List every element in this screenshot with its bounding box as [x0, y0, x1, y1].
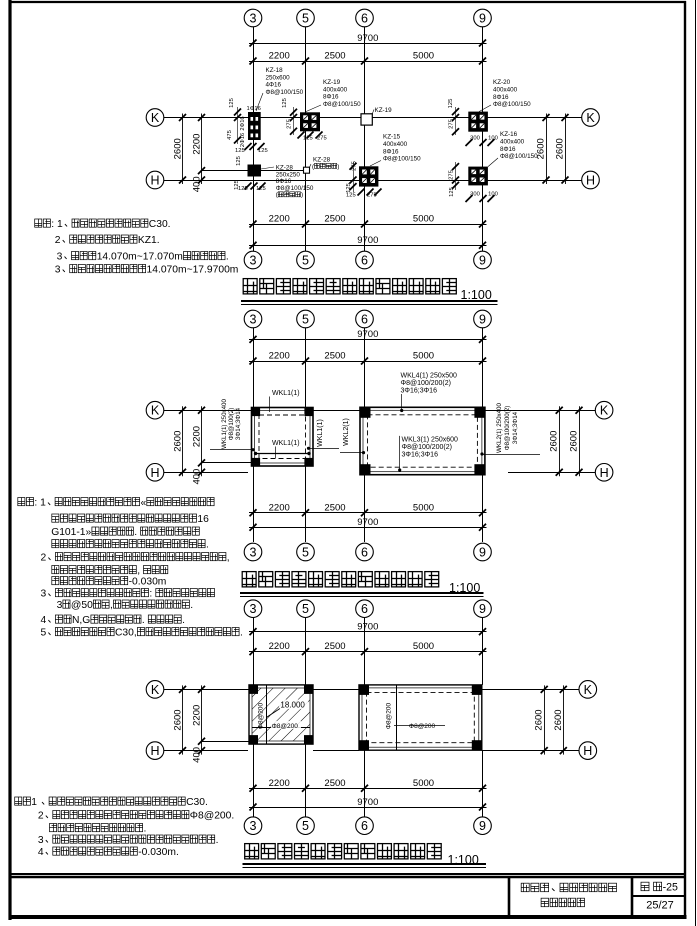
svg-text:9: 9 [479, 254, 486, 268]
svg-text:400x400: 400x400 [383, 141, 408, 148]
svg-text:@50: @50 [71, 600, 93, 611]
svg-text:2200: 2200 [269, 641, 290, 652]
svg-text:475: 475 [227, 130, 233, 140]
svg-text:4: 4 [38, 847, 44, 858]
svg-text:9: 9 [479, 602, 486, 616]
svg-text:1: 1 [31, 797, 37, 808]
svg-text:WKL3(1) 250x600: WKL3(1) 250x600 [402, 437, 459, 444]
svg-text:2600: 2600 [173, 709, 184, 730]
svg-text:WKL2(1) 250x400: WKL2(1) 250x400 [496, 403, 503, 453]
svg-text:.: . [226, 252, 229, 263]
column KZ-15 [359, 166, 378, 186]
svg-text:3: 3 [250, 546, 257, 560]
svg-text:2500: 2500 [324, 351, 345, 362]
svg-text:3: 3 [38, 835, 44, 846]
svg-text:K: K [151, 404, 160, 418]
plan1 grid bubbles top [244, 9, 491, 27]
column KZ-20 [468, 112, 488, 132]
plan3 right dims [534, 685, 567, 754]
plan1 grid bubbles bottom [244, 251, 491, 269]
svg-text:8Φ16: 8Φ16 [323, 94, 339, 101]
svg-text:6: 6 [361, 602, 368, 616]
svg-text:KZ-28: KZ-28 [313, 157, 331, 164]
svg-text:14.070m~17.9700m: 14.070m~17.9700m [147, 265, 239, 276]
svg-text:WKL1(1) 250x400: WKL1(1) 250x400 [221, 399, 228, 449]
svg-text:8Φ16: 8Φ16 [383, 148, 399, 155]
svg-text:H: H [586, 174, 595, 188]
svg-text:,: , [227, 553, 230, 564]
svg-text:KZ-20: KZ-20 [493, 79, 511, 86]
plan2 right flue box walls [360, 407, 485, 474]
KZ-19 label [305, 79, 361, 112]
svg-text:2500: 2500 [324, 641, 345, 652]
svg-text:18.000: 18.000 [280, 701, 305, 710]
plan3 right axis bubbles [579, 681, 597, 760]
svg-text:8Φ16: 8Φ16 [500, 146, 516, 153]
svg-text:25/27: 25/27 [646, 900, 674, 912]
svg-text:6: 6 [361, 313, 368, 327]
svg-text:6: 6 [361, 254, 368, 268]
plan2 grid lines [164, 328, 595, 542]
svg-text:3: 3 [41, 589, 47, 600]
svg-text:2200: 2200 [269, 351, 290, 362]
svg-text:3Φ16;3Φ16: 3Φ16;3Φ16 [401, 388, 438, 395]
level 18.000 [267, 700, 308, 718]
svg-text:125: 125 [235, 148, 245, 154]
svg-text:2: 2 [55, 235, 61, 246]
svg-text:8Φ16: 8Φ16 [493, 94, 509, 101]
svg-text:3Φ16;3Φ16: 3Φ16;3Φ16 [402, 452, 439, 459]
svg-text:.: . [134, 527, 137, 538]
svg-text:1:100: 1:100 [461, 288, 492, 302]
svg-text:2200: 2200 [269, 51, 290, 62]
plan2 top dimensions [249, 329, 487, 364]
svg-text:H: H [150, 466, 159, 480]
svg-text:400x400: 400x400 [500, 138, 525, 145]
svg-text:3Φ14;3Φ14: 3Φ14;3Φ14 [235, 407, 242, 440]
svg-text:WKL2(1): WKL2(1) [343, 418, 350, 446]
column KZ-16 [468, 167, 488, 186]
svg-text:9700: 9700 [357, 621, 378, 632]
svg-text:5: 5 [302, 313, 309, 327]
plan1 top dimensions [249, 33, 487, 65]
svg-text:Φ8@200: Φ8@200 [258, 702, 265, 729]
svg-text:H: H [150, 174, 159, 188]
svg-text:G101-1»: G101-1» [51, 527, 91, 538]
svg-text:5: 5 [302, 254, 309, 268]
svg-text:2600: 2600 [553, 709, 564, 730]
svg-text:5000: 5000 [413, 641, 434, 652]
svg-text:.: . [142, 615, 145, 626]
svg-text:9700: 9700 [357, 329, 378, 340]
svg-text:): ) [301, 192, 303, 199]
WKL4 label [400, 373, 457, 413]
KZ-15 label [370, 134, 421, 167]
plan2 left dims [173, 406, 206, 484]
plan3 bottom dimensions [249, 778, 487, 811]
svg-text:3Φ14;3Φ14: 3Φ14;3Φ14 [512, 411, 519, 444]
svg-text:Φ8@100/200(2): Φ8@100/200(2) [402, 444, 452, 451]
svg-text:9: 9 [479, 12, 486, 26]
plan2 right axis bubbles [595, 401, 613, 481]
svg-text:2: 2 [38, 811, 44, 822]
svg-text:3: 3 [57, 600, 63, 611]
svg-text:9: 9 [479, 313, 486, 327]
svg-text:.: . [206, 540, 209, 551]
svg-text:Φ8@200: Φ8@200 [272, 723, 299, 730]
svg-text:K: K [151, 683, 160, 697]
plan2 bottom dimensions [249, 502, 487, 531]
svg-text:.: . [190, 600, 193, 611]
caption plan2 [240, 572, 484, 597]
svg-text:9: 9 [479, 546, 486, 560]
notes block 2 [18, 498, 243, 639]
svg-text:6: 6 [361, 546, 368, 560]
svg-text:5: 5 [302, 12, 309, 26]
node KZ-19 open square at grid6/K [361, 107, 392, 125]
svg-text:KZ-18: KZ-18 [266, 67, 284, 74]
svg-text:5000: 5000 [413, 351, 434, 362]
svg-text:KZ-19: KZ-19 [375, 107, 393, 114]
plan1 right axis bubbles K H [582, 109, 600, 189]
KZ-20 label [479, 79, 531, 112]
svg-text::: : [149, 589, 152, 600]
svg-text:250x600: 250x600 [266, 74, 291, 81]
svg-text:WKL1(1): WKL1(1) [272, 390, 300, 397]
svg-text:2200: 2200 [269, 502, 290, 513]
svg-text:3: 3 [250, 12, 257, 26]
svg-text:125: 125 [282, 98, 288, 108]
svg-text:WKL1(1): WKL1(1) [317, 419, 324, 447]
KZ-28 label [261, 165, 314, 199]
svg-text:5000: 5000 [413, 502, 434, 513]
WKL2 right rotated spec label [480, 403, 540, 456]
column KZ-18 [248, 112, 261, 140]
svg-text:2Φ16: 2Φ16 [240, 133, 246, 147]
plan3 left slab box hatched [249, 685, 313, 744]
svg-text:2: 2 [41, 553, 47, 564]
svg-text:Φ8@200: Φ8@200 [386, 702, 393, 729]
svg-text:400: 400 [192, 469, 203, 485]
svg-text:C30.: C30. [186, 797, 208, 808]
svg-text:125: 125 [448, 99, 454, 109]
svg-text:KZ-15: KZ-15 [383, 134, 401, 141]
svg-text:9700: 9700 [357, 235, 378, 246]
svg-text:5: 5 [302, 819, 309, 833]
svg-text:H: H [150, 744, 159, 758]
svg-text:9700: 9700 [357, 33, 378, 44]
svg-text:Φ8@200: Φ8@200 [409, 723, 436, 730]
svg-text:.: . [182, 615, 185, 626]
notes block 1 [35, 219, 239, 276]
beam WKL1 mid [254, 452, 311, 455]
title block frame [9, 874, 686, 917]
svg-text:1Φ16: 1Φ16 [247, 106, 261, 112]
svg-text:2600: 2600 [549, 431, 560, 452]
svg-text:125: 125 [229, 98, 235, 108]
title block text [521, 882, 678, 912]
svg-text:4Φ16: 4Φ16 [266, 82, 282, 89]
svg-text:H: H [600, 466, 609, 480]
plan1 grid lines [164, 27, 582, 251]
svg-text:N,G: N,G [72, 615, 90, 626]
svg-text:2Φ16: 2Φ16 [240, 116, 246, 130]
plan1 left dims 2600 2200 400 [173, 114, 206, 193]
column KZ-28 filled [248, 165, 262, 177]
plan1 bottom dimensions [249, 214, 487, 249]
svg-text:Φ8@200.: Φ8@200. [190, 811, 234, 822]
svg-text:H: H [583, 744, 592, 758]
plan3 left box rebar labels [258, 702, 302, 729]
svg-text:Φ8@100/150: Φ8@100/150 [266, 89, 304, 96]
plan1 left axis bubbles K H [146, 109, 164, 189]
plan3 grid bubbles bottom [244, 817, 491, 835]
plan2 grid bubbles bottom [244, 543, 491, 561]
svg-text:Φ8@100/200(2): Φ8@100/200(2) [504, 406, 511, 451]
plan1 right dims 2600 2600 [536, 114, 569, 185]
svg-text:Φ8@100/150: Φ8@100/150 [383, 156, 421, 163]
KZ-16 small dims [449, 162, 498, 202]
svg-text:Φ8@100/150: Φ8@100/150 [323, 101, 361, 108]
svg-text:): ) [337, 163, 339, 170]
svg-text:,: , [110, 600, 113, 611]
svg-text:K: K [584, 683, 593, 697]
KZ-15 small dims [346, 161, 382, 198]
svg-text:: 1: : 1 [51, 219, 63, 230]
svg-text:3: 3 [55, 265, 61, 276]
caption plan1 [241, 279, 498, 305]
node KZ-28 open square at grid5 [304, 157, 340, 174]
svg-text:5: 5 [302, 546, 309, 560]
svg-text:3: 3 [250, 602, 257, 616]
svg-text:400x400: 400x400 [493, 86, 518, 93]
WKL1 labels [270, 390, 340, 458]
svg-text:KZ1.: KZ1. [138, 235, 160, 246]
svg-text:9: 9 [479, 819, 486, 833]
plan3 left dims [173, 685, 206, 762]
svg-text:Φ8@100/150: Φ8@100/150 [276, 185, 314, 192]
notes block 3 [15, 797, 235, 858]
svg-text:4: 4 [41, 615, 47, 626]
svg-text:C30.: C30. [149, 219, 171, 230]
svg-text:.: . [144, 824, 147, 835]
KZ-20 small dims [448, 99, 498, 146]
svg-text:2500: 2500 [324, 51, 345, 62]
svg-text:16: 16 [197, 514, 209, 525]
KZ-28 small dims [234, 156, 266, 192]
svg-text:3: 3 [250, 254, 257, 268]
plan3 grid lines [164, 618, 579, 817]
svg-text:2200: 2200 [192, 426, 203, 447]
svg-text:6: 6 [361, 819, 368, 833]
svg-text:,: , [137, 566, 140, 577]
svg-text:-0.030m: -0.030m [129, 577, 167, 588]
svg-text:14.070m~17.070m: 14.070m~17.070m [97, 252, 183, 263]
svg-text:5000: 5000 [413, 778, 434, 789]
WKL2 left rotated label [340, 418, 365, 454]
svg-text:2200: 2200 [192, 705, 203, 726]
plan2 left shaft box walls [252, 408, 314, 467]
plan3 right slab box [359, 685, 482, 750]
svg-text:: 1: : 1 [34, 498, 46, 509]
KZ-18 label [256, 67, 304, 111]
svg-text:Φ8@100/150: Φ8@100/150 [500, 153, 538, 160]
svg-text:125: 125 [236, 156, 242, 166]
svg-text:2600: 2600 [569, 431, 580, 452]
svg-text:3: 3 [57, 252, 63, 263]
svg-text:K: K [600, 404, 609, 418]
svg-text:Φ8@100/150: Φ8@100/150 [493, 101, 531, 108]
svg-text:9700: 9700 [357, 797, 378, 808]
plan2 left axis bubbles [146, 401, 164, 481]
svg-text:5: 5 [41, 628, 47, 639]
svg-text:5: 5 [302, 602, 309, 616]
svg-text:.: . [216, 835, 219, 846]
svg-text:2200: 2200 [269, 778, 290, 789]
svg-text:2500: 2500 [324, 778, 345, 789]
svg-text:2600: 2600 [173, 138, 184, 159]
svg-text:-0.030m.: -0.030m. [138, 847, 179, 858]
svg-text:C30,: C30, [115, 628, 137, 639]
svg-text:WKL1(1): WKL1(1) [272, 440, 300, 447]
plan2 right box corner columns [360, 407, 485, 474]
svg-text:KZ-16: KZ-16 [500, 131, 518, 138]
KZ-18 small dims [227, 98, 268, 154]
plan3 top dimensions [249, 621, 487, 655]
svg-text:2600: 2600 [173, 431, 184, 452]
plan3 right box corner columns [359, 685, 482, 750]
svg-text:125: 125 [346, 193, 356, 199]
svg-text:Φ8@100(2): Φ8@100(2) [228, 408, 235, 441]
svg-text:2200: 2200 [192, 134, 203, 155]
WKL3 label [398, 436, 458, 472]
svg-text:KZ-19: KZ-19 [323, 79, 341, 86]
plan2 right dims [549, 406, 583, 476]
svg-text:2200: 2200 [269, 214, 290, 225]
svg-text:3: 3 [250, 819, 257, 833]
KZ-16 label [488, 131, 538, 167]
svg-text:5000: 5000 [413, 214, 434, 225]
svg-text:2600: 2600 [555, 138, 566, 159]
svg-text:K: K [586, 111, 595, 125]
plan3 left box corner columns [249, 685, 313, 744]
svg-text:2500: 2500 [324, 502, 345, 513]
svg-text:400x400: 400x400 [323, 86, 348, 93]
svg-text:WKL4(1) 250x500: WKL4(1) 250x500 [401, 373, 458, 380]
svg-text:.: . [240, 628, 243, 639]
svg-text:400: 400 [192, 176, 203, 192]
plan2 grid bubbles top [244, 310, 491, 328]
svg-text:-25: -25 [663, 882, 678, 894]
svg-text:5000: 5000 [413, 51, 434, 62]
KZ-19 small dims [282, 98, 327, 141]
WKL1 left rotated spec label [210, 399, 255, 452]
plan2 left box corner columns [252, 408, 314, 467]
plan3 right box rebar labels [386, 702, 436, 730]
svg-text:400: 400 [192, 747, 203, 763]
column KZ-19 [300, 112, 320, 131]
svg-text:K: K [151, 111, 160, 125]
svg-text:2500: 2500 [324, 214, 345, 225]
svg-text:6: 6 [361, 12, 368, 26]
svg-text:275: 275 [449, 170, 455, 180]
svg-text:«: « [141, 498, 147, 509]
plan3 grid bubbles top [244, 600, 491, 618]
svg-text:Φ8@100/200(2): Φ8@100/200(2) [401, 380, 451, 387]
svg-text:3: 3 [250, 313, 257, 327]
svg-text:9700: 9700 [357, 517, 378, 528]
plan3 left axis bubbles [146, 681, 164, 760]
svg-text:2600: 2600 [534, 709, 545, 730]
caption plan3 [243, 844, 487, 868]
